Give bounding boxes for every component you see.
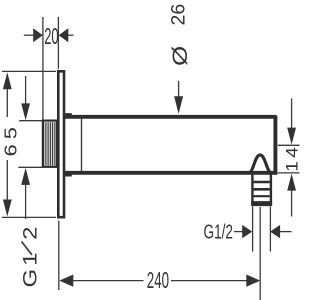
dim 65: lower line <box>6 160 8 200</box>
dim G1/2 left: lower tail <box>25 185 27 220</box>
outlet thread left edge <box>251 175 253 206</box>
outlet left extension line <box>252 207 254 252</box>
dim 20: right extension line <box>57 17 59 69</box>
svg-text:G1 2: G1 2 <box>19 224 41 288</box>
dim 20: left tail <box>24 34 35 36</box>
dim G1/2 left: upper tail <box>25 76 27 104</box>
outlet right extension line <box>269 207 271 252</box>
svg-text:20: 20 <box>44 24 58 50</box>
dim 14: bottom extension line <box>278 172 300 174</box>
dim 65: top extension line <box>2 70 56 72</box>
dim 14: lower arrowhead <box>287 174 296 191</box>
tube root collar top step <box>65 113 72 118</box>
dim 240: dimension line right part <box>171 280 248 282</box>
outlet dome bump <box>248 155 272 173</box>
dim 65: upper line <box>6 89 8 117</box>
dim 240: dimension line left part <box>72 280 144 282</box>
outlet thread right edge <box>270 175 272 206</box>
tube seam line near wall <box>81 118 83 171</box>
dim 65: upper arrowhead <box>3 72 12 89</box>
dim 14: lower tail <box>291 190 293 216</box>
svg-text:G1/2: G1/2 <box>204 221 233 243</box>
nipple top extension line <box>19 120 42 122</box>
dim 20: right arrowhead <box>59 28 69 42</box>
dim G1/2 right: right tail <box>280 231 292 233</box>
dim 20: left extension line <box>42 17 44 120</box>
svg-text:Ø: Ø <box>168 46 191 66</box>
dim 65: bottom extension line <box>2 216 56 218</box>
dim G1/2 left: lower arrowhead <box>21 168 30 185</box>
dim 14: upper arrowhead <box>287 128 296 145</box>
svg-text:14: 14 <box>283 144 300 172</box>
dim 20: right tail <box>67 34 73 36</box>
dim G1/2 left: label slash stroke <box>22 242 33 256</box>
dim G1/2 right: left tail <box>234 231 243 233</box>
nipple bottom extension line <box>18 166 42 168</box>
dim 14: top extension line <box>278 144 300 146</box>
dim diameter 26: leader line <box>178 81 180 97</box>
svg-text:65: 65 <box>1 122 20 156</box>
dim diameter 26: arrowhead <box>174 96 183 114</box>
outlet bottom band <box>251 201 272 206</box>
tube root collar bottom step <box>65 172 72 177</box>
dim G1/2 right: right-pointing arrowhead <box>242 225 252 238</box>
dim G1/2 right: left-pointing arrowhead <box>270 225 280 238</box>
outlet thread bands <box>254 181 270 184</box>
wall plate (escutcheon side view) <box>58 71 64 217</box>
svg-text:26: 26 <box>168 4 190 26</box>
dim 240: left extension line (wall face) <box>58 221 60 291</box>
spout tube right edge <box>273 115 277 174</box>
spout tube bottom edge <box>65 171 278 175</box>
nipple thread hatch <box>45 122 56 165</box>
svg-text:240: 240 <box>147 267 169 293</box>
threaded nipple G1/2 behind wall <box>43 121 57 167</box>
dim 240: left arrowhead <box>59 275 73 287</box>
dim 240: outlet centre line <box>259 207 261 300</box>
dim 14: upper tail <box>291 98 293 128</box>
dim 65: lower arrowhead <box>3 200 12 217</box>
dim G1/2 left: upper arrowhead <box>21 103 30 120</box>
dim 20: left arrowhead <box>33 28 43 42</box>
dim 240: right arrowhead <box>246 275 260 287</box>
spout tube top edge <box>64 115 276 119</box>
